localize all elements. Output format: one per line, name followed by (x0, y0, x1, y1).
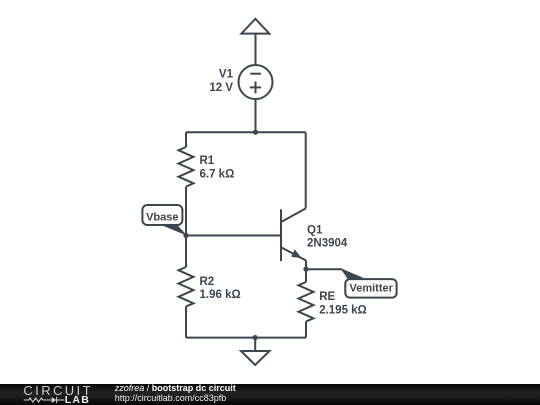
resistor R2 (179, 267, 194, 306)
ground (241, 338, 270, 365)
CircuitLab logo (0, 384, 100, 405)
svg-text:Vbase: Vbase (146, 212, 178, 224)
wire base (186, 235, 281, 237)
svg-text:2.195 kΩ: 2.195 kΩ (319, 305, 367, 317)
svg-text:2N3904: 2N3904 (307, 237, 348, 249)
svg-text:Vemitter: Vemitter (349, 283, 393, 295)
wire (306, 268, 342, 270)
junction node Vbase (183, 233, 188, 238)
net flag Vbase (142, 205, 187, 236)
footer url text (115, 394, 227, 403)
net flag Vemitter (340, 268, 397, 298)
svg-text:12 V: 12 V (209, 82, 233, 94)
wire (185, 236, 187, 268)
svg-text:R1: R1 (200, 155, 215, 167)
footer bar (0, 384, 540, 405)
transistor Q1 (281, 209, 306, 262)
power flag VCC arrow (241, 19, 269, 34)
svg-text:Q1: Q1 (307, 224, 323, 236)
svg-text:6.7 kΩ: 6.7 kΩ (200, 169, 235, 181)
junction (253, 335, 258, 340)
wire emitter (305, 261, 307, 270)
wire (185, 306, 187, 337)
resistor RE (299, 282, 314, 321)
resistor R1 (179, 147, 194, 187)
wire top rail (186, 131, 306, 133)
wire (185, 187, 187, 236)
svg-text:RE: RE (319, 291, 335, 303)
svg-text:R2: R2 (200, 276, 215, 288)
voltage source V1 (239, 65, 273, 99)
svg-text:1.96 kΩ: 1.96 kΩ (200, 289, 241, 301)
wire (255, 99, 257, 132)
wire (255, 34, 257, 66)
wire (185, 132, 187, 147)
svg-text:LAB: LAB (65, 394, 90, 405)
footer title text (115, 384, 236, 393)
wire collector (305, 132, 307, 208)
wire (305, 269, 307, 282)
junction (253, 130, 258, 135)
junction node Vemitter (303, 267, 308, 272)
wire (305, 321, 307, 337)
wire bottom rail (186, 337, 306, 339)
svg-text:V1: V1 (219, 69, 234, 81)
